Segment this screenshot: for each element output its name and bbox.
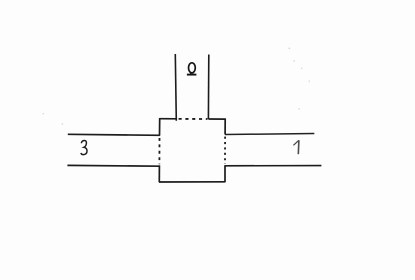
wire port 2 left conductor — [175, 54, 176, 121]
box top edge dashed segment — [179, 118, 208, 120]
port label 2 — [187, 63, 197, 75]
wire port 3 lower conductor — [67, 164, 159, 167]
network box N1 solid outline segments — [159, 118, 225, 182]
box right edge dashed segment — [224, 137, 226, 164]
wire port 3 upper conductor — [68, 134, 160, 135]
box left edge dashed segment — [158, 138, 160, 164]
wire port 2 right conductor — [207, 55, 209, 120]
port label 3 — [81, 140, 87, 154]
wire port 1 upper conductor — [225, 134, 314, 135]
port label 1 — [293, 140, 299, 154]
wire port 1 lower conductor — [225, 165, 322, 167]
